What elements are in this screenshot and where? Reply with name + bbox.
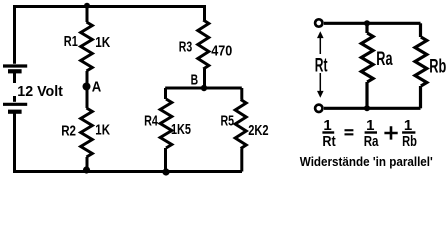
svg-text:1: 1 [404, 117, 412, 134]
svg-text:470: 470 [211, 42, 232, 59]
svg-text:R4: R4 [144, 112, 158, 129]
svg-text:1K: 1K [95, 122, 110, 139]
svg-text:R3: R3 [179, 38, 192, 55]
svg-text:1: 1 [366, 117, 374, 134]
svg-text:A: A [92, 79, 102, 96]
svg-text:12 Volt: 12 Volt [17, 83, 63, 100]
svg-text:Rb: Rb [402, 133, 417, 150]
svg-text:1K5: 1K5 [171, 121, 191, 138]
svg-text:1: 1 [323, 117, 331, 134]
svg-text:Ra: Ra [376, 48, 392, 70]
svg-text:Rt: Rt [322, 133, 335, 150]
svg-text:Rt: Rt [315, 54, 328, 76]
svg-text:1K: 1K [95, 34, 110, 51]
svg-text:R2: R2 [61, 122, 76, 139]
svg-text:Rb: Rb [429, 56, 446, 78]
svg-text:R5: R5 [221, 112, 235, 129]
svg-text:Ra: Ra [364, 133, 379, 150]
svg-text:2K2: 2K2 [248, 122, 268, 139]
svg-text:B: B [191, 71, 199, 88]
svg-text:R1: R1 [64, 33, 78, 50]
svg-text:Widerstände 'in parallel': Widerstände 'in parallel' [300, 154, 433, 169]
